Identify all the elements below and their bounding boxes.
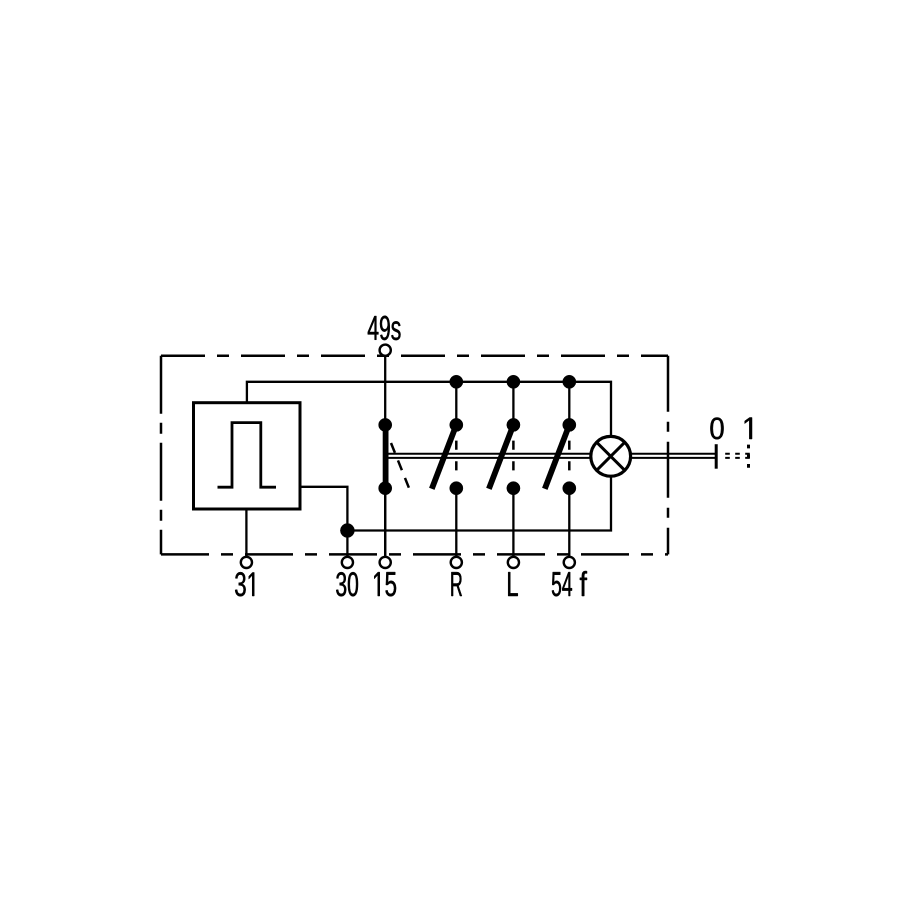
wire: 15 lower contact to terminal [384, 488, 386, 557]
wire: node 30 down to terminal 30 [346, 531, 348, 557]
label L [508, 572, 518, 596]
label 49s [368, 316, 401, 340]
indicator lamp E1 [591, 436, 631, 476]
wire: bus stub down to L contact [512, 382, 514, 425]
mechanical linkage (double line) [387, 454, 716, 458]
label 15 [374, 572, 396, 596]
wire: bus stub down to R contact [455, 382, 457, 425]
label 30 [336, 572, 358, 596]
junction dot on bus at R [450, 375, 463, 388]
wire: flasher output to node 30 [300, 487, 347, 531]
switch S1 terminal 15 (closed) [379, 418, 409, 495]
wire: flasher bottom to terminal 31 [245, 509, 247, 557]
switch S2 terminal R (open) [432, 418, 463, 495]
label 31 [235, 572, 254, 596]
flasher unit U1 (pulse generator box) [194, 403, 301, 509]
wire: 49s vertical down to terminal 15 [384, 356, 386, 556]
junction dot on bus at L [507, 375, 520, 388]
terminal R [451, 557, 462, 568]
terminal 49s (open circle) [380, 345, 391, 356]
label 0 [710, 418, 723, 440]
wire: L lower contact to terminal [512, 488, 514, 557]
terminal 54f [564, 557, 575, 568]
switch S4 terminal 54f (open) [545, 418, 576, 495]
wire: bus stub down to 54f contact [568, 382, 570, 425]
wire: R lower contact to terminal [455, 488, 457, 557]
junction dot on bus at 54f [563, 375, 576, 388]
terminal 15 [380, 557, 391, 568]
linkage dashed extension to position 1 [725, 454, 750, 458]
wire: bottom bus from node 30 to lamp branch [347, 477, 611, 531]
label 1 [745, 418, 752, 440]
position 1 tick mark (dashed) [747, 445, 750, 469]
terminal 31 [241, 557, 252, 568]
switch S3 terminal L (open) [489, 418, 520, 495]
wire: flasher top to upper bus across to lamp branch [247, 382, 611, 436]
label f [580, 571, 587, 596]
terminal 30 [342, 557, 353, 568]
terminal L [508, 557, 519, 568]
label R [451, 572, 462, 596]
wire: 54f lower contact to terminal [568, 488, 570, 557]
label 54 [552, 572, 572, 596]
housing boundary (dash-dot frame) [161, 356, 668, 555]
junction node 30 [340, 524, 354, 538]
position 0 tick mark [715, 444, 718, 469]
